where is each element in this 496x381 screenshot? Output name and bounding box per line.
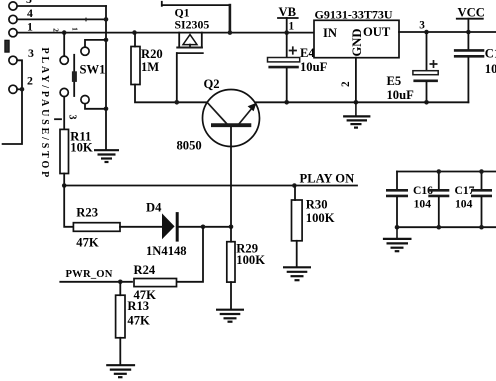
junction C19 top [479,169,484,174]
VCC stem [467,19,469,32]
E5 bottom lead [426,82,428,102]
C19 bottom plate [471,195,492,198]
svg-text:D4: D4 [146,201,162,215]
C16 bottom lead [396,197,398,227]
R29 top lead [230,227,232,242]
junction C17 top [437,169,442,174]
C17 bottom lead [438,197,440,227]
capacitor E5 top lead [426,32,428,71]
ground symbol C16 net [383,227,412,251]
capacitor C16 left lead top [396,172,398,190]
C16 top plate [386,189,408,192]
svg-text:1: 1 [27,20,33,34]
junction pin2/pin3 [20,87,25,92]
svg-text:2: 2 [27,74,33,88]
Q1 gate lead [176,53,178,102]
svg-text:SI2305: SI2305 [175,18,210,32]
connector J1 pin 4 circle [9,15,17,23]
junction R13 top [118,280,123,285]
Q2 collector line [208,103,227,124]
R29 bottom lead [230,282,232,308]
junction SW1 branch on top net [62,30,67,35]
R30 bottom lead [296,241,298,266]
svg-text:3: 3 [419,20,425,32]
C18 top plate [454,49,484,52]
R13 top lead [119,282,121,295]
svg-text:3: 3 [28,46,34,60]
wire R20 top lead [134,33,136,47]
ground symbol regulator [343,102,370,127]
junction R24 drop [201,225,206,230]
junction C19 bottom [479,225,484,230]
C19 top plate [471,189,492,192]
svg-text:4: 4 [27,6,33,20]
Q1 source stub [178,33,180,48]
wire PLAY ON net [64,185,357,187]
E4 negative plate [268,66,298,69]
wire pin5 to ground column [17,5,106,7]
C16 bottom plate [386,195,408,198]
regulator GND lead [355,58,357,103]
svg-text:8050: 8050 [177,139,202,153]
E5 positive plate [413,71,438,75]
connector J1 pin 1 circle [9,29,17,37]
svg-text:VB: VB [279,5,297,19]
junction GND rail [354,100,359,105]
C18 bottom plate [454,55,484,58]
C18 bottom lead [467,58,469,103]
wire R20 bottom to gate net [135,85,207,103]
junction pin4 column [104,17,109,22]
Q1 channel bar [176,47,203,49]
tiny tick mark pin4 wire [85,18,87,22]
connector J1 pin 3 circle [9,56,17,64]
svg-text:SW1: SW1 [80,63,106,77]
svg-text:PLAY/PAUSE/STOP: PLAY/PAUSE/STOP [39,48,50,181]
diode D4 triangle [162,213,175,239]
svg-text:1M: 1M [141,60,159,74]
wire SW1 lower-right lead [85,104,106,109]
junction base/R29 [229,225,234,230]
Q2 base lead [230,127,232,227]
svg-text:R23: R23 [76,206,98,220]
wire pin4 to ground column [17,18,106,20]
resistor R13 [116,295,125,338]
switch SW1 actuator [73,55,75,96]
svg-text:VCC: VCC [458,5,485,19]
svg-text:2: 2 [340,81,352,87]
C17 bottom plate [428,195,449,198]
svg-text:R24: R24 [134,263,156,277]
junction C17 bottom [437,225,442,230]
resistor R29 [227,242,235,282]
svg-text:3: 3 [67,115,78,120]
capacitor E4 top lead [286,33,288,58]
wire D4 to base node [179,226,231,228]
Q2 emitter arrowhead [248,103,257,112]
junction E5 top [424,30,429,35]
capacitor C18 top lead [467,32,469,49]
svg-text:OUT: OUT [363,25,391,39]
junction gate/R20/collector net [175,100,180,105]
junction R30 top [292,183,297,188]
svg-text:R13: R13 [127,299,149,313]
junction R20 top [132,30,137,35]
switch SW1 plunger [72,71,77,82]
connector J1 pin 5 circle [9,2,17,10]
Q2 emitter line [239,108,253,125]
switch SW1 lower-right contact [81,96,89,104]
switch SW1 upper-left contact [60,56,68,64]
ground symbol R30 [283,267,311,280]
junction VCC [466,30,471,35]
junction SW1 lower right [104,107,109,112]
switch SW1 upper-right contact [81,47,89,55]
junction C16 bottom [395,225,400,230]
svg-text:IN: IN [323,26,337,40]
svg-text:104: 104 [455,197,473,210]
svg-text:104: 104 [414,197,432,210]
svg-text:E5: E5 [387,74,402,88]
svg-text:10uF: 10uF [300,60,328,74]
junction E4 bottom [284,100,289,105]
E5 plus sign [430,60,438,68]
svg-text:47K: 47K [76,236,99,250]
R13 bottom lead [119,338,121,365]
E4 plus sign [289,46,297,54]
R30 top lead [294,186,296,201]
svg-text:10uF: 10uF [387,88,415,102]
capacitor C17 lead top [438,172,440,190]
svg-text:104: 104 [485,62,496,76]
svg-text:100K: 100K [306,211,335,225]
wire PWR_ON [60,281,132,283]
resistor R30 [292,200,303,241]
Q1 drain stub [201,33,203,48]
svg-text:G9131-33T73U: G9131-33T73U [315,7,393,21]
wire SW1 upper-right lead [85,40,106,47]
E5 negative plate [413,80,438,83]
Q1 diode stem [189,45,191,48]
wire SW1 upper-left lead [63,33,65,57]
ground symbol left column [94,150,119,162]
wire pin3 down to pin2 join and hook [3,60,22,144]
wire pin1 main top net [17,32,314,34]
VCC underline [457,18,483,20]
wire R24 branch [175,227,203,282]
C19 bottom lead [481,197,483,227]
E4 bottom lead [286,69,288,103]
wire R11 bottom [63,174,65,186]
resistor R11 [60,129,69,173]
svg-text:Q2: Q2 [204,77,220,91]
svg-text:PWR_ON: PWR_ON [66,269,113,280]
wire C16 net bottom [397,226,496,228]
junction Q1 drain [228,30,233,35]
wire SW1 to R11 [63,97,65,130]
ground symbol R29 [216,310,244,322]
resistor R20 [131,47,140,85]
ground symbol R13 [106,365,135,377]
svg-text:47K: 47K [127,314,150,328]
svg-text:PLAY ON: PLAY ON [300,171,355,185]
svg-text:GND: GND [350,29,364,57]
junction R11/PLAY wire [62,183,67,188]
Q1 gate bar [176,52,204,54]
bottom rail of top section [255,101,469,103]
ground column vertical wire [105,6,107,149]
VB underline [278,17,298,19]
junction E5 bottom [424,100,429,105]
Q1 drain drop (thick) [229,5,232,32]
svg-text:10K: 10K [70,140,93,154]
wire C16 net top [397,171,496,173]
svg-text:1: 1 [71,27,79,31]
regulator U1 G9131-33T73U box [314,20,399,57]
transistor Q2 circle [203,90,260,147]
capacitor C19 lead top [481,172,483,190]
Q1 body diode triangle [183,35,197,45]
resistor R23 [73,223,120,232]
connector J1 pin 2 circle [9,85,17,93]
Q2 base bar [211,123,251,127]
svg-text:1: 1 [289,21,295,33]
svg-text:2: 2 [52,28,60,32]
D4 cathode bar [176,212,179,242]
svg-text:1N4148: 1N4148 [146,244,187,258]
E4 positive plate [268,58,300,62]
junction VB/E4 [284,30,289,35]
svg-text:R30: R30 [306,198,328,212]
switch SW1 lower-left contact [60,88,68,96]
wire R23 to D4 [120,226,162,228]
junction SW1 upper right [104,38,109,43]
svg-text:R20: R20 [141,47,163,61]
VB stem [286,18,288,33]
C17 top plate [428,189,449,192]
svg-text:E4: E4 [300,46,315,60]
wire pin2 stub [17,88,22,90]
wire R23 branch down [64,186,73,227]
svg-text:C18: C18 [485,46,496,60]
svg-text:100K: 100K [236,253,265,267]
transistor Q1 top bracket [162,2,230,6]
wire OUT net [399,31,496,33]
connector body bar [5,40,9,52]
resistor R24 [134,279,177,287]
R11 pin3 tick [55,118,61,120]
